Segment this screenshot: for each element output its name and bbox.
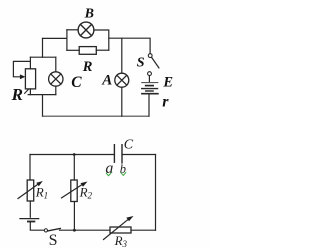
switch S top contact: [148, 54, 152, 58]
wire R1 top lead: [29, 155, 31, 181]
wire battery 2 bottom lead: [30, 222, 44, 230]
battery E plate 4: [146, 90, 153, 92]
svg-text:B: B: [84, 7, 94, 22]
wire lamp B right lead: [94, 30, 109, 50]
watermark tick under b: [121, 172, 126, 175]
capacitor C right plate: [121, 145, 123, 163]
svg-text:R1: R1: [35, 185, 48, 201]
capacitor C left plate: [113, 145, 115, 163]
wire rheostat top lead: [29, 57, 31, 69]
svg-text:E: E: [162, 75, 173, 91]
wire bottom circuit right vertical: [155, 155, 157, 231]
svg-text:R3: R3: [114, 233, 128, 248]
svg-text:A: A: [101, 73, 112, 89]
resistor R2 box: [71, 180, 77, 202]
switch S bottom contact: [148, 72, 152, 76]
lamp A: [115, 73, 129, 87]
wire R2 top lead: [73, 155, 75, 181]
watermark tick under a: [106, 173, 111, 176]
resistor R2 arrow: [62, 184, 84, 198]
wire lamp C top lead: [55, 57, 57, 72]
battery E plate 2: [146, 85, 153, 87]
svg-text:C: C: [71, 74, 82, 91]
resistor R (rheostat) box: [25, 69, 35, 89]
svg-text:C: C: [124, 138, 134, 153]
switch S2 blade: [48, 229, 61, 231]
resistor R1 arrowhead: [36, 181, 43, 186]
battery E plate 3: [142, 88, 158, 90]
lamp C: [49, 72, 63, 86]
rheostat wiper arrowhead: [20, 74, 26, 79]
wire C-section top rail: [30, 56, 55, 58]
wire resistor R right lead: [96, 49, 109, 51]
wire left vertical lower: [42, 95, 44, 117]
wire R2 bottom lead: [73, 202, 75, 231]
resistor R2 arrowhead: [81, 182, 88, 187]
battery 2 short plate: [28, 221, 35, 223]
wire lamp A top lead: [121, 38, 123, 73]
wire bottom bus middle: [60, 229, 111, 231]
wire top bus right segment: [109, 38, 150, 53]
wire battery top lead: [148, 76, 150, 82]
label S switch 2: [49, 232, 58, 248]
wire bottom circuit top bus left: [30, 154, 114, 156]
svg-text:S: S: [137, 56, 145, 71]
wire R1 bottom lead: [29, 201, 31, 217]
svg-text:R: R: [82, 59, 93, 75]
resistor R1 box: [27, 180, 34, 201]
switch S2 contact: [44, 229, 47, 232]
resistor R3 arrow: [104, 220, 129, 240]
wire bottom bus: [43, 115, 149, 117]
wire rheostat wiper arm: [13, 61, 30, 76]
node junction dot top: [73, 153, 76, 156]
battery E plate 5: [142, 93, 158, 95]
wire R3 right lead: [131, 229, 156, 231]
wire left vertical upper: [42, 38, 44, 57]
wire lamp C bottom lead: [55, 86, 57, 94]
svg-text:R: R: [11, 85, 23, 104]
node junction dot bottom: [73, 229, 76, 232]
wire top bus left segment: [43, 37, 67, 39]
rheostat corner tick: [25, 90, 29, 94]
svg-text:S: S: [49, 232, 58, 248]
resistor R3 arrowhead: [126, 216, 133, 221]
wire C-section bottom rail: [28, 94, 56, 96]
battery E plate 1: [142, 82, 158, 84]
wire bottom circuit top bus right: [122, 154, 156, 156]
wire resistor R left lead: [67, 49, 79, 51]
svg-text:r: r: [162, 94, 169, 111]
lamp B: [78, 22, 94, 38]
svg-text:R2: R2: [79, 185, 93, 201]
wire lamp A bottom lead: [121, 87, 123, 116]
wire B-section left vertical: [66, 30, 68, 51]
wire lamp B left lead: [67, 29, 78, 31]
resistor R box: [79, 47, 96, 55]
resistor R1 arrow: [18, 184, 39, 199]
wire battery bottom lead: [148, 95, 150, 117]
wire rheostat bottom lead: [29, 89, 31, 95]
switch S blade: [152, 57, 159, 68]
resistor R3 box: [110, 227, 131, 233]
battery 2 long plate: [20, 218, 39, 220]
